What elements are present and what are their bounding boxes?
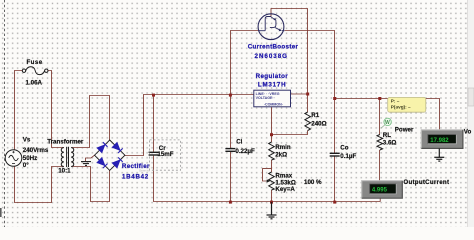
svg-text:Vo: Vo — [464, 128, 472, 135]
svg-text:P(avg): –: P(avg): – — [391, 105, 411, 110]
svg-text:100 %: 100 % — [304, 179, 322, 186]
AC source Vs symbol — [5, 150, 22, 167]
wire: secondary bottom to bridge bottom vertex — [71, 167, 109, 202]
diode bottom-right (blue) — [112, 157, 122, 167]
svg-text:2N6038G: 2N6038G — [255, 53, 289, 60]
svg-text:10:1: 10:1 — [58, 168, 71, 175]
svg-text:4.995: 4.995 — [372, 188, 388, 194]
svg-text:P: –: P: – — [391, 99, 400, 104]
wire: fuse right to transformer primary top — [48, 71, 64, 148]
ammeter OutputCurrent display — [362, 181, 403, 199]
wire: Rmax wiper loop — [263, 169, 272, 181]
svg-text:OutputCurrent: OutputCurrent — [403, 179, 449, 186]
ground symbol (below voltmeter) — [434, 148, 444, 161]
wire: ADJ pin down to Rmin — [271, 107, 273, 142]
svg-text:1B4B42: 1B4B42 — [122, 174, 149, 181]
wire: bridge right vertex to input rail (node VIN) — [125, 95, 254, 156]
resistor R1 symbol — [305, 112, 311, 131]
junction: Co top on output rail — [333, 97, 336, 100]
junction: Ci/base on input rail — [229, 94, 232, 97]
wire: Co top lead — [334, 99, 336, 154]
svg-text:240Ω: 240Ω — [311, 121, 326, 128]
junction: Cr top on input rail — [152, 94, 155, 97]
resistor Rmin symbol — [269, 142, 275, 160]
wire: Vs bottom loop to transformer primary bottom — [15, 166, 64, 202]
wire: Rmax bottom to ground rail — [271, 190, 273, 202]
junction: Rmax ground on ground rail — [270, 201, 273, 204]
wire: RL branch from output rail — [379, 99, 381, 135]
wire: emitter to output rail (node VO) — [285, 31, 440, 130]
ground symbol (transformer secondary / bridge minus) — [81, 162, 91, 166]
svg-text:0°: 0° — [23, 162, 29, 169]
svg-text:Power: Power — [395, 126, 414, 133]
svg-text:Key=A: Key=A — [275, 186, 295, 193]
selection dashed box around Cr — [150, 140, 181, 170]
svg-text:VOLTAGE··: VOLTAGE·· — [256, 96, 275, 100]
regulator U1 LM317H box — [254, 90, 291, 107]
svg-text:R1: R1 — [311, 112, 319, 119]
wire: bridge left vertex to ground stub — [86, 155, 95, 161]
svg-text:Transformer: Transformer — [47, 138, 84, 145]
wire: ammeter bottom stub to ground rail — [379, 198, 381, 201]
wire: secondary top over-route to bridge top vertex — [71, 96, 109, 148]
wire: Cr top lead — [153, 95, 155, 152]
right scrollbar — [468, 0, 474, 227]
svg-text:Gene ric: Gene ric — [139, 168, 150, 172]
window resize mark bottom-left — [0, 208, 2, 217]
junction: ADJ node at R1 bottom — [270, 133, 273, 136]
resistor RL symbol — [377, 135, 383, 151]
capacitor Ci symbol — [225, 149, 235, 152]
transistor Q1 2N6038G (Darlington) — [258, 14, 284, 40]
wire: RL bottom to ammeter — [379, 150, 381, 181]
wire: collector of Q1 to output pin node — [271, 9, 308, 94]
svg-text:0.1µF: 0.1µF — [340, 153, 356, 160]
svg-text:3.6Ω: 3.6Ω — [383, 140, 397, 147]
svg-text:Rmin: Rmin — [275, 144, 291, 151]
svg-text:Vs: Vs — [23, 137, 31, 144]
diode top-left (blue) — [97, 142, 107, 152]
page border dashed line (left) — [4, 0, 6, 227]
svg-text:W: W — [385, 120, 390, 126]
power probe W circle — [381, 118, 391, 128]
svg-text:RL: RL — [383, 132, 391, 139]
svg-text:0.22µF: 0.22µF — [235, 148, 255, 155]
wire: R1 top lead — [307, 94, 309, 112]
svg-text:Regulator: Regulator — [256, 73, 289, 80]
transformer T1 symbol — [61, 147, 74, 167]
svg-text:240Vrms: 240Vrms — [23, 147, 49, 154]
svg-text:Rmax: Rmax — [275, 173, 292, 180]
capacitor Co symbol — [330, 153, 340, 156]
svg-text:Co: Co — [340, 145, 348, 152]
junction: OUT pin / collector / R1 — [306, 93, 309, 96]
svg-text:1.06A: 1.06A — [26, 80, 43, 87]
fuse F1 symbol — [22, 67, 48, 75]
svg-text:15mF: 15mF — [157, 151, 173, 158]
wire: Co bottom lead — [334, 156, 336, 202]
junction: Co bottom on ground rail — [333, 201, 336, 204]
svg-text:2kΩ: 2kΩ — [275, 151, 287, 158]
wire: Cr bottom lead + bottom ground rail — [154, 156, 381, 202]
wire: Ci bottom lead — [230, 152, 232, 202]
bridge rectifier D1 diamond — [95, 140, 125, 170]
svg-text:Fuse: Fuse — [27, 59, 43, 66]
junction: Ci bottom on ground rail — [229, 201, 232, 204]
junction: RL top on output rail — [378, 97, 381, 100]
svg-text:17.982: 17.982 — [430, 138, 449, 144]
wire: Vs top to fuse left — [15, 71, 23, 150]
svg-text:LM317H: LM317H — [258, 82, 287, 89]
wire: Rmin bottom to Rmax top — [271, 160, 273, 172]
voltmeter Vo display — [421, 130, 463, 149]
wire: Ci branch with transistor base tap — [231, 31, 259, 149]
capacitor Cr symbol — [149, 152, 159, 155]
wiper arrow of Rmax — [266, 180, 269, 182]
diode top-right (blue) — [112, 143, 122, 153]
svg-text:Ci: Ci — [236, 138, 242, 145]
diode bottom-left (blue) — [97, 158, 107, 168]
svg-text:CurrentBooster: CurrentBooster — [248, 44, 299, 51]
potentiometer Rmax symbol — [269, 172, 275, 190]
wire: R1 bottom to ADJ node — [272, 131, 308, 135]
wattmeter readout yellow box — [388, 97, 426, 112]
wire: LM317 OUT pin to node — [291, 93, 308, 95]
svg-text:·COMMON·: ·COMMON· — [264, 102, 283, 106]
ground symbol (below Rmax) — [267, 202, 277, 219]
